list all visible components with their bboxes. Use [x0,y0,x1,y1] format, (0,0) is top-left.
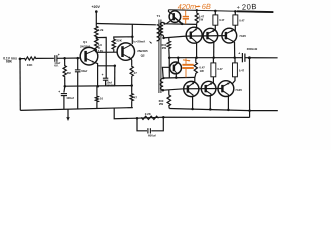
resistor 0.47-1W upper [195,9,204,27]
wire box-d [234,58,236,63]
svg-text:2W: 2W [159,102,164,106]
node busb 3 [227,109,230,112]
resistor box 0.47 c [211,63,223,77]
svg-text:+: + [102,73,104,77]
resistor 600-2 [159,90,171,109]
resistor 22K [112,37,132,52]
label +20B [237,2,257,12]
node busb 2 [209,108,212,111]
node B [76,57,79,60]
svg-text:600uf: 600uf [148,133,156,137]
label Ic=20mA [133,40,152,44]
wire Q1 emitter [94,62,97,86]
transformer T1 label [157,14,161,18]
node coil lower top [162,77,164,79]
capacitor orange upper [183,10,189,23]
capacitor 2000mfd [238,47,257,62]
transformer T1 primary [157,25,160,41]
svg-text:27: 27 [134,71,138,75]
node lower link [175,76,178,79]
node bus driver [177,56,180,59]
svg-text:0.47: 0.47 [239,19,245,23]
wire box-d to outb3 [232,77,235,84]
svg-text:1W: 1W [200,69,205,73]
svg-text:Ic=20mA: Ic=20mA [133,40,146,44]
svg-text:20B: 20B [242,2,257,12]
svg-text:7A05: 7A05 [235,88,242,92]
transistor out2 top [203,28,218,43]
wire top rail [168,10,273,12]
svg-text:10K: 10K [27,63,33,67]
wire 5.6K to collector line [95,50,97,52]
resistor box 0.47 a [213,15,225,25]
wire 3M to bus [64,77,66,86]
input source label [3,56,17,63]
svg-text:+20V: +20V [91,5,100,9]
svg-text:0.47: 0.47 [219,18,225,22]
svg-text:+: + [237,5,240,11]
wire node B down [77,58,79,70]
wire 60uf down [77,72,79,109]
svg-text:+: + [58,53,60,57]
svg-text:7A05: 7A05 [239,34,246,38]
node 2.2k-5.6K [96,36,99,39]
wire base line upper [164,36,226,38]
wire bus drop left [168,58,170,78]
svg-text:0.47: 0.47 [217,67,223,71]
wire decouple tap [97,37,106,78]
node Q1 emitter bus [97,85,100,88]
resistor 27 [130,66,137,86]
wire outb1 emitter [192,95,195,109]
capacitor 600uf loop [137,117,163,137]
svg-text:68K: 68K [6,59,13,63]
svg-text:0.47: 0.47 [239,68,245,72]
resistor 600-1 [161,38,170,58]
wire output down [249,58,251,118]
transistor driver lower [170,58,182,78]
wire Q2 collector [131,24,133,44]
ground symbol [66,109,69,121]
wire out3 collector [234,11,236,15]
wire +20V rail [96,24,156,25]
resistor 2.2k [95,26,104,38]
node A [63,57,66,60]
wire outb2 emitter [210,94,211,109]
wire +20V down [95,12,97,26]
resistor 10K [24,57,37,67]
wire output bottom [250,110,278,112]
resistor 47 [130,86,137,108]
node sec upper [162,37,165,40]
transistor out3 bottom [218,81,242,97]
wire ground corner [114,108,249,119]
svg-text:T1: T1 [157,14,161,18]
wire sec lower bottom [162,89,164,91]
svg-text:2.2k: 2.2k [98,28,104,32]
svg-text:3M: 3M [67,71,72,75]
transistor driver upper [166,10,181,24]
bus mid-left [65,85,132,88]
wire output top [245,57,278,59]
wire emitter link [98,65,115,67]
svg-text:1W: 1W [199,18,204,22]
node Q2 emitter junction [130,84,133,87]
svg-text:Q2: Q2 [141,53,145,57]
transformer T1 secondary upper [160,22,163,35]
wire mid link lower [163,76,195,79]
transistor Q1 2N3391 [80,40,98,65]
node driver emitter [181,23,184,26]
node bus out3 [233,56,236,59]
node busb 1 [191,108,194,111]
wire node A down [64,58,66,65]
svg-text:2.2K: 2.2K [145,112,152,116]
capacitor C1 10uf [54,53,60,67]
wire out1 emitter [196,42,198,57]
transformer T1 core [159,20,161,94]
wire input to R 10K [20,58,24,60]
node +20V [95,10,98,13]
wire sec lower top [162,67,169,78]
node bus out1 [195,56,198,59]
svg-text:2000mfd: 2000mfd [247,47,258,51]
node fb right [162,116,165,119]
wire base line lower [163,89,223,91]
resistor box 0.47 b [233,15,245,25]
resistor 0.47-1W lower [194,58,205,82]
transistor out1 top [186,27,202,43]
node bus 600 [168,56,171,59]
annotation orange gain [178,2,211,12]
wire box-c [212,58,214,63]
capacitor orange lower [182,58,193,77]
wire outb3 emitter [227,95,229,110]
wire box-a to out2 [214,25,216,31]
node output bus [248,109,251,112]
transistor out1 bottom [184,81,199,96]
svg-text:+: + [58,90,60,94]
node emitter link [114,65,117,68]
resistor 3M [63,65,71,77]
resistor 5.6K [95,38,104,53]
svg-text:47: 47 [134,95,138,99]
wire sec upper bottom [162,35,164,38]
node input [19,58,22,61]
capacitor 100uf [58,86,73,109]
svg-text:6V.: 6V. [54,64,58,68]
wire box-b to out3 [234,25,236,31]
svg-text:420m: 420m [178,2,197,12]
svg-text:6B: 6B [202,2,211,11]
node coil upper top [163,23,165,25]
bus ground left [20,108,133,111]
capacitor 10uf 35VDC [102,73,116,87]
svg-text:+: + [238,51,240,55]
wire 10K to C1 [37,57,54,59]
transistor Q2 2N2405 [117,43,148,60]
node sec lower [162,89,165,92]
wire Q1 collector [95,50,97,52]
node bus left end [64,85,67,88]
resistor 10 [95,86,103,108]
bus mid [169,57,242,59]
node fb left [136,117,139,120]
transistor out3 top [222,28,246,43]
wire sec upper top [163,22,196,24]
wire input down [19,59,21,111]
bus bottom [169,109,249,111]
wire Q2 emitter [130,58,133,65]
node bus out2 [212,56,215,59]
svg-text:35VDC: 35VDC [106,83,115,87]
wire link down [114,66,116,86]
svg-text:60uf: 60uf [81,69,87,73]
resistor box 0.47 d [233,63,245,77]
wire collector line [96,51,117,53]
resistor 2.2K feedback [141,112,159,120]
wire out2 collector [214,11,216,15]
label +20V [91,5,100,9]
transistor out2 bottom [201,81,216,96]
wire out2 emitter [213,42,215,58]
node output [248,56,251,59]
wire C1 to Q1 base [57,57,81,59]
svg-text:10: 10 [100,96,104,100]
node 22K top [131,36,134,39]
transformer T1 secondary lower [160,78,163,90]
svg-text:100uf: 100uf [66,96,74,100]
capacitor 60uf [75,69,87,73]
svg-text:22K: 22K [116,39,122,43]
svg-text:2W: 2W [162,46,167,50]
node rail 2 [234,10,237,13]
node rail 1 [214,10,217,13]
wire out3 emitter [234,42,236,58]
wire box-c to outb2 [212,77,214,84]
